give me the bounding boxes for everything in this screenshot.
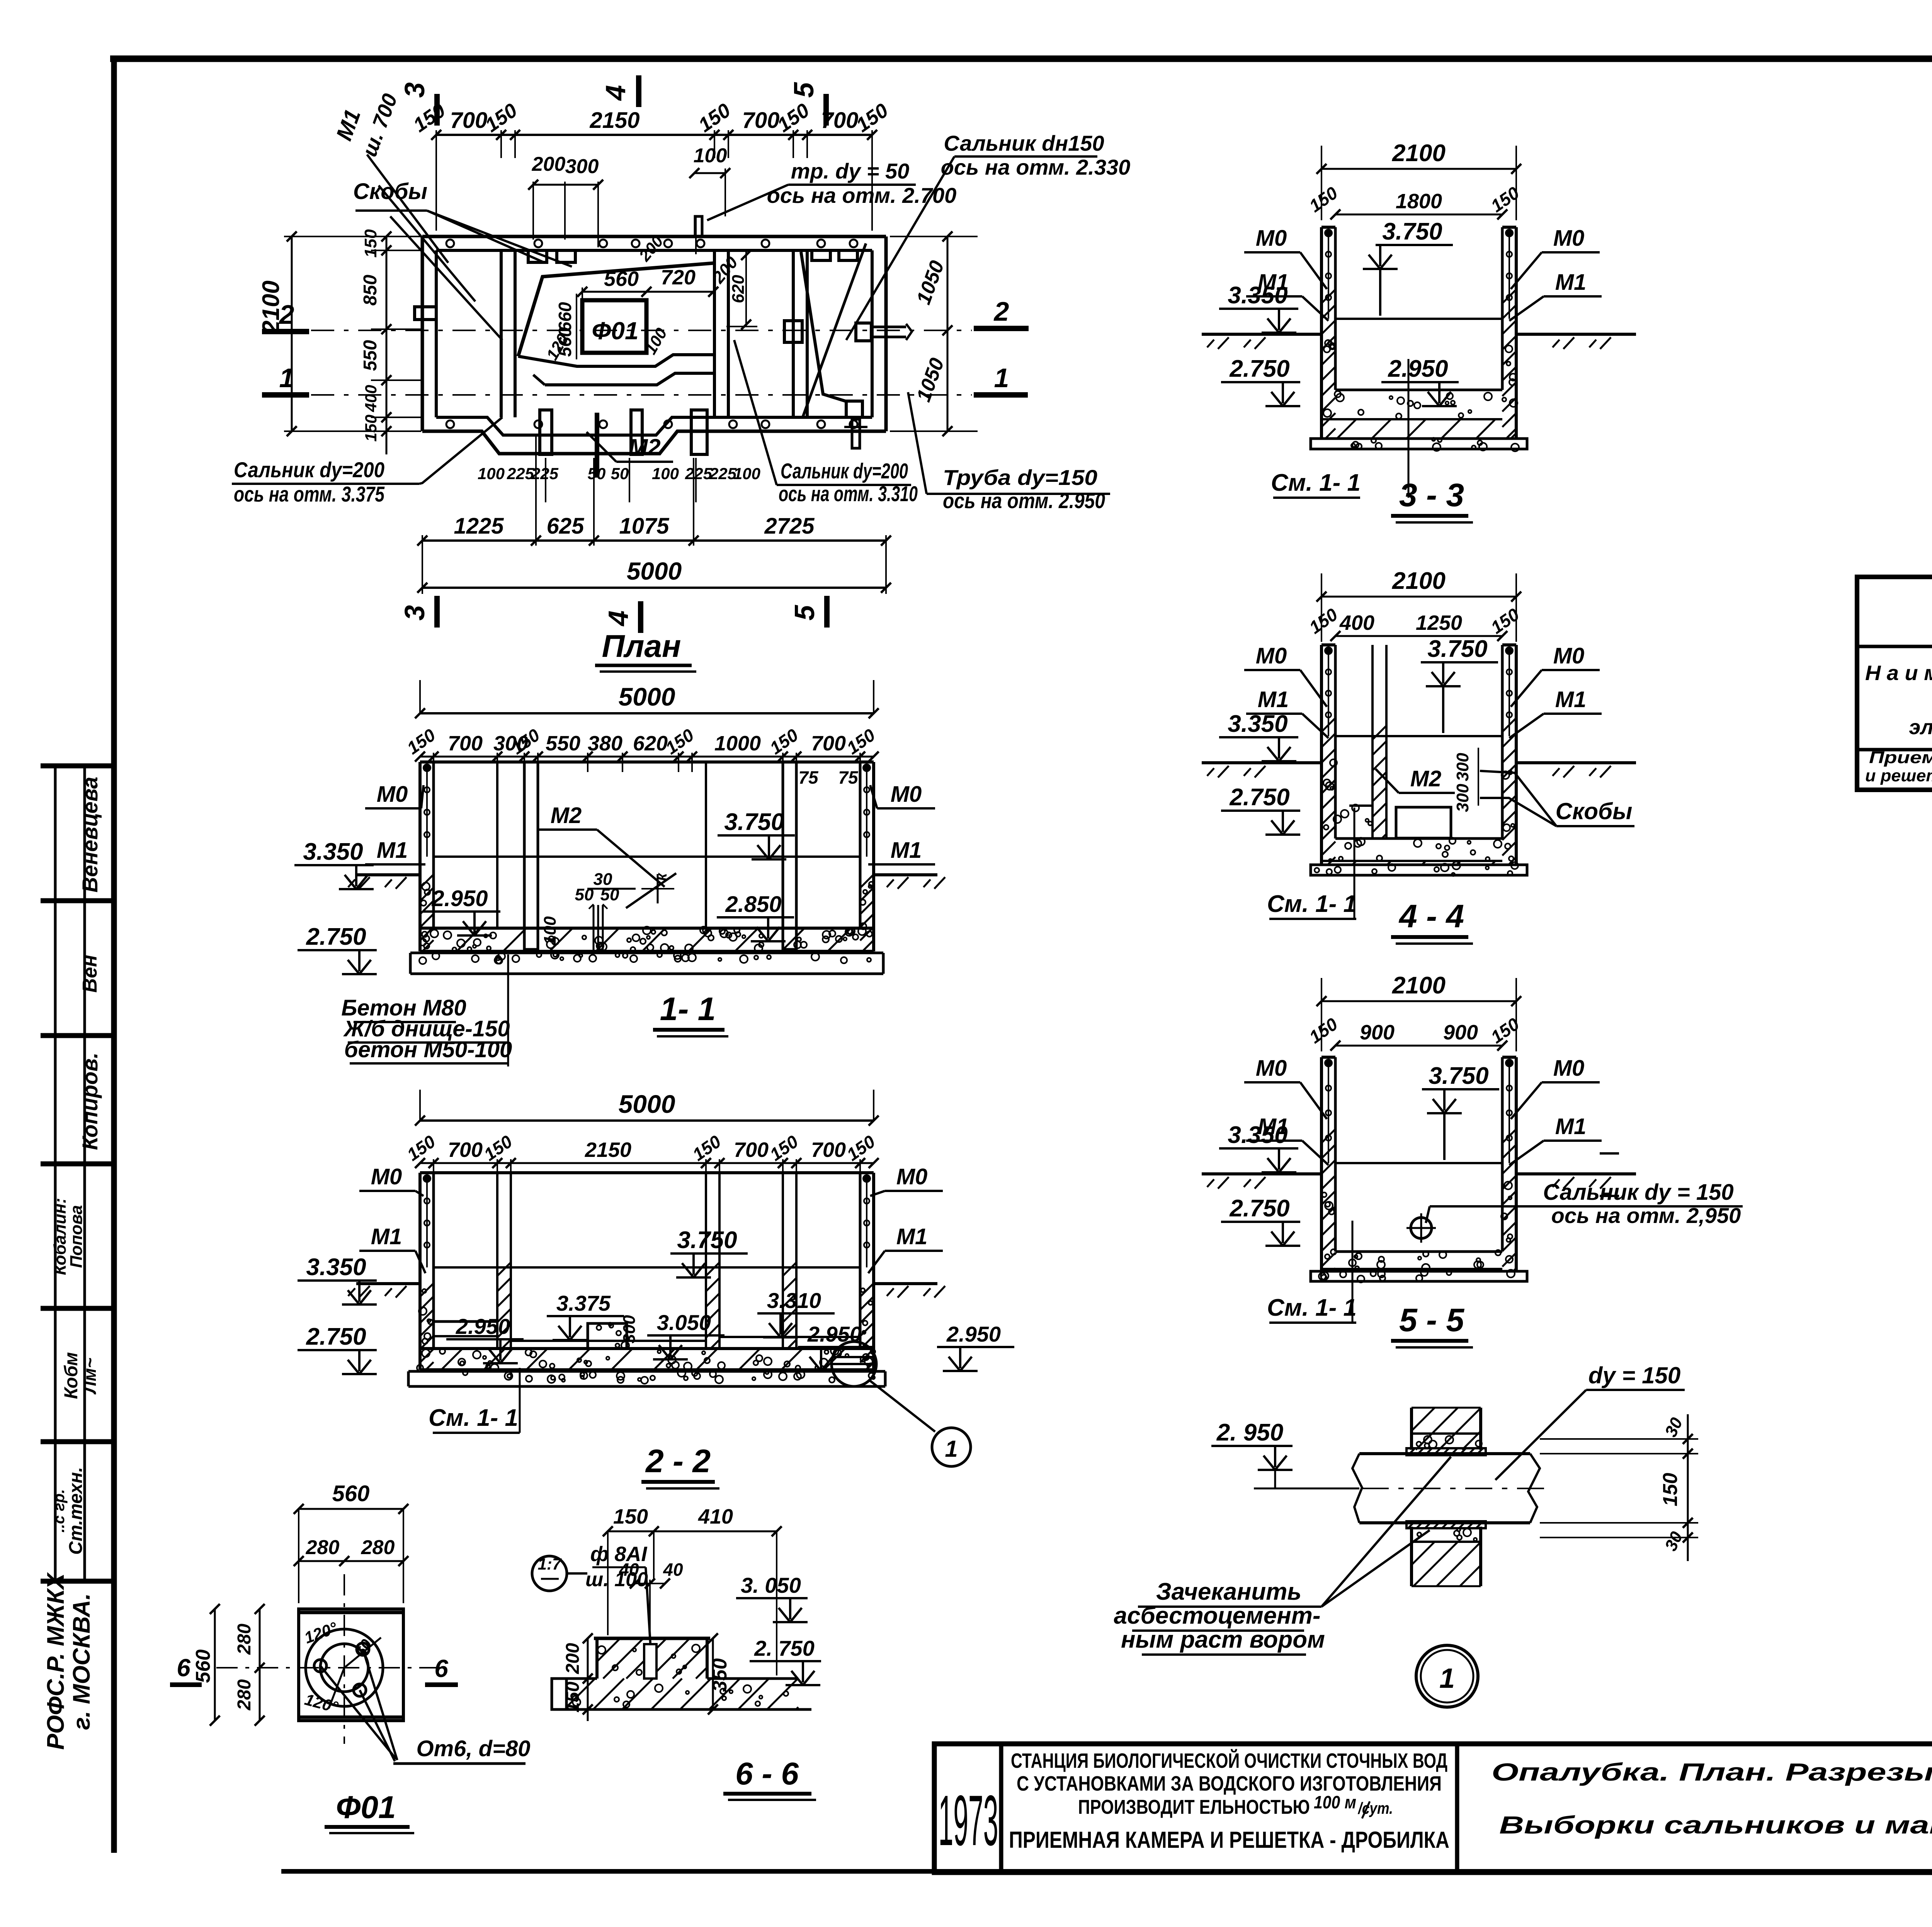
page frame top border — [110, 56, 1932, 62]
section 1-1 wall hatching — [420, 875, 433, 888]
plan right dim 1050 1050 — [947, 236, 949, 431]
section 5-5 wall hatching — [1321, 1129, 1335, 1143]
section 5-5 rebar — [1328, 1063, 1329, 1163]
plan right chamber grinder triangle — [801, 252, 848, 402]
F01 square outline — [299, 1609, 403, 1721]
F01 bolt holes — [314, 1660, 327, 1672]
svg-text:410: 410 — [698, 1505, 733, 1528]
plan below dim row 1 — [422, 539, 886, 542]
svg-text:ось на отм. 2.950: ось на отм. 2.950 — [943, 488, 1105, 513]
page frame left border — [111, 59, 117, 1853]
svg-text:1: 1 — [1439, 1663, 1455, 1694]
svg-text:2.750: 2.750 — [306, 924, 366, 950]
section 1-1 interior level line — [434, 855, 860, 858]
svg-text:Сальник dу = 150: Сальник dу = 150 — [1543, 1180, 1733, 1205]
svg-text:3.375: 3.375 — [556, 1291, 611, 1315]
svg-text:План: План — [602, 629, 681, 664]
svg-text:Н а и м е н о в а н.: Н а и м е н о в а н. — [1865, 662, 1932, 685]
pipe detail caulk leaders — [1321, 1530, 1430, 1607]
svg-text:6: 6 — [434, 1655, 448, 1682]
pipe detail centerline — [1310, 1488, 1549, 1489]
section 4-4 rebar — [1328, 651, 1329, 736]
svg-text:М1: М1 — [1258, 687, 1289, 712]
6-6 rebar circle label — [532, 1556, 567, 1591]
svg-text:элемента: элемента — [1909, 716, 1932, 739]
section 3-3 rebar — [1328, 233, 1329, 319]
svg-text:225: 225 — [709, 464, 737, 483]
section 4-4 floor — [1335, 837, 1502, 840]
svg-text:От6, d=80: От6, d=80 — [417, 1736, 531, 1761]
plan gland stub at partition — [784, 321, 802, 342]
table materialov outer frame — [1857, 577, 1932, 790]
section 1-1 note leader line — [507, 954, 509, 1066]
svg-text:М0: М0 — [371, 1164, 402, 1189]
svg-text:2.750: 2.750 — [1229, 355, 1289, 382]
svg-text:2.750: 2.750 — [306, 1323, 366, 1350]
svg-text:Веневцева: Веневцева — [78, 777, 102, 893]
svg-text:3.350: 3.350 — [1228, 282, 1287, 309]
6-6 dim right 350 — [712, 1638, 714, 1709]
svg-text:280: 280 — [361, 1536, 395, 1559]
section 2-2 wall hatching — [420, 1284, 433, 1297]
svg-text:1: 1 — [994, 363, 1009, 393]
svg-text:2 - 2: 2 - 2 — [645, 1443, 711, 1479]
svg-text:М0: М0 — [891, 782, 922, 807]
svg-text:300: 300 — [565, 155, 599, 178]
svg-text:3: 3 — [400, 82, 430, 98]
section 1-1 rebar left wall — [426, 768, 428, 857]
section 2-2 gland detail circle at right wall — [832, 1342, 876, 1386]
section 1-1 column pair right — [783, 762, 796, 949]
F01 circles — [306, 1629, 383, 1706]
section 5-5 inner dim row — [1335, 1045, 1502, 1047]
6-6 slab left curb — [552, 1679, 566, 1709]
svg-text:700: 700 — [811, 732, 846, 755]
section 4-4 walls — [1320, 645, 1323, 865]
svg-text:50: 50 — [611, 464, 629, 483]
svg-text:620: 620 — [729, 275, 748, 303]
svg-text:100: 100 — [541, 916, 560, 945]
svg-text:2725: 2725 — [764, 514, 815, 539]
svg-text:300: 300 — [620, 1315, 639, 1344]
F01 hole leaders — [320, 1666, 396, 1759]
svg-text:ш. 100: ш. 100 — [585, 1568, 648, 1591]
section 1-1 ground line left — [356, 873, 420, 876]
svg-text:3.350: 3.350 — [306, 1254, 366, 1281]
section 3-3 inner dim row — [1335, 214, 1502, 216]
pipe detail dims right — [1540, 1453, 1698, 1454]
svg-text:3.750: 3.750 — [1429, 1063, 1488, 1089]
svg-text:850: 850 — [360, 275, 381, 306]
section 1-1 tank walls — [420, 760, 874, 764]
section 4-4 wall hatching — [1321, 718, 1335, 732]
svg-text:2100: 2100 — [1392, 568, 1446, 594]
table materialov grid — [1857, 645, 1932, 648]
svg-text:М0: М0 — [377, 782, 408, 807]
svg-text:СТАНЦИЯ БИОЛОГИЧЕСКОЙ ОЧИСТКИ: СТАНЦИЯ БИОЛОГИЧЕСКОЙ ОЧИСТКИ СТОЧНЫХ ВО… — [1011, 1749, 1447, 1772]
6-6 ground slab — [566, 1677, 597, 1680]
pipe detail wall lower part — [1410, 1527, 1413, 1586]
section 5-5 floor — [1335, 1250, 1502, 1253]
svg-text:Приемная камера: Приемная камера — [1869, 748, 1932, 767]
svg-text:2. 950: 2. 950 — [1216, 1419, 1283, 1446]
svg-text:ось на отм. 2.700: ось на отм. 2.700 — [767, 183, 957, 207]
pipe detail position circle 1 — [1416, 1645, 1478, 1707]
svg-text:2.850: 2.850 — [725, 892, 781, 917]
section 2-2 tank walls — [420, 1171, 874, 1174]
svg-text:900: 900 — [1360, 1021, 1395, 1044]
svg-text:150: 150 — [362, 415, 380, 442]
svg-text:2.750: 2.750 — [1229, 784, 1289, 811]
svg-text:30: 30 — [594, 870, 612, 889]
svg-text:Попова: Попова — [67, 1205, 86, 1268]
svg-text:625: 625 — [547, 514, 585, 539]
svg-text:550: 550 — [546, 732, 580, 755]
svg-text:ПРОИЗВОДИТ ЕЛЬНОСТЬЮ: ПРОИЗВОДИТ ЕЛЬНОСТЬЮ — [1078, 1796, 1310, 1818]
plan pipe sleeves through bottom wall — [540, 410, 552, 454]
plan cut mark 5 bottom — [824, 596, 830, 628]
section 1-1 top dimension row — [420, 756, 874, 758]
svg-text:700: 700 — [448, 732, 483, 755]
svg-text:М0: М0 — [1553, 226, 1585, 251]
section 2-2 ground lines — [356, 1282, 420, 1285]
svg-text:2100: 2100 — [1392, 972, 1446, 999]
svg-text:150: 150 — [613, 1505, 648, 1528]
svg-text:400: 400 — [362, 385, 380, 412]
plan pipe stub right wall outside — [856, 323, 871, 341]
svg-text:3.750: 3.750 — [677, 1227, 737, 1253]
svg-text:700: 700 — [450, 108, 488, 133]
svg-text:225: 225 — [507, 464, 534, 483]
svg-text:2100: 2100 — [258, 281, 284, 334]
svg-text:М0: М0 — [1256, 643, 1287, 668]
F01 dim 280 280 — [299, 1560, 403, 1562]
section 2-2 floor slab — [420, 1347, 874, 1350]
svg-text:6 - 6: 6 - 6 — [735, 1756, 799, 1791]
section 4-4 center block on floor — [1396, 807, 1451, 838]
svg-text:280: 280 — [234, 1679, 255, 1711]
plan wall dots — [446, 240, 454, 247]
plan cut mark 5 top — [823, 94, 829, 126]
6-6 anchor bolt — [644, 1644, 656, 1679]
plan F01 foundation square — [582, 300, 646, 353]
svg-text:2.950: 2.950 — [1388, 355, 1448, 382]
section 1-1 ground line right — [874, 873, 937, 876]
section 4-4 dim 2100 — [1321, 596, 1516, 598]
section 5-5 base plate — [1311, 1271, 1527, 1281]
svg-text:300: 300 — [1453, 753, 1472, 781]
svg-text:Вен: Вен — [79, 955, 101, 993]
svg-text:75: 75 — [838, 767, 859, 787]
plan left small dims — [386, 236, 388, 454]
F01 left dims 280 — [259, 1609, 261, 1721]
svg-text:С УСТАНОВКАМИ ЗА ВОДСКОГО ИЗГ: С УСТАНОВКАМИ ЗА ВОДСКОГО ИЗГОТОВЛЕНИЯ — [1017, 1772, 1442, 1795]
svg-text:См. 1- 1: См. 1- 1 — [1267, 891, 1357, 917]
svg-text:М1: М1 — [1555, 270, 1587, 295]
svg-text:3.350: 3.350 — [303, 838, 363, 865]
svg-text:ось на отм. 3.375: ось на отм. 3.375 — [234, 482, 385, 506]
svg-text:ПРИЕМНАЯ КАМЕРА И РЕШЕТКА - Д: ПРИЕМНАЯ КАМЕРА И РЕШЕТКА - ДРОБИЛКА — [1009, 1827, 1449, 1853]
plan centerline 2-2 — [311, 330, 972, 331]
section 3-3 ground lines — [1202, 333, 1321, 336]
6-6 dims 40 40 — [635, 1583, 650, 1584]
title block frame — [934, 1744, 1932, 1873]
plan partition walls — [500, 250, 503, 417]
svg-text:5: 5 — [789, 82, 820, 98]
plan gland stub left wall — [415, 307, 436, 320]
svg-text:3.750: 3.750 — [1427, 636, 1487, 662]
svg-text:М2: М2 — [551, 803, 582, 828]
svg-text:700: 700 — [742, 108, 780, 133]
section 4-4 interior partition — [1371, 645, 1374, 838]
svg-text:См. 1- 1: См. 1- 1 — [1267, 1294, 1357, 1321]
svg-text:700: 700 — [821, 108, 859, 133]
section 2-2 left chamber floor — [434, 1320, 497, 1323]
svg-text:550: 550 — [360, 340, 381, 371]
section 5-5 gland circle in wall — [1411, 1218, 1432, 1238]
section 2-2 top dimension row — [420, 1162, 874, 1164]
plan cut mark 4 top — [636, 75, 641, 107]
svg-text:350: 350 — [709, 1658, 731, 1692]
svg-text:225: 225 — [531, 464, 559, 483]
svg-text:..с гр.: ..с гр. — [51, 1489, 68, 1532]
svg-text:700: 700 — [734, 1138, 769, 1162]
svg-text:1250: 1250 — [1416, 611, 1462, 634]
F01 left dim 560 — [214, 1609, 216, 1721]
section 2-2 interior level line — [434, 1266, 860, 1269]
svg-text:300: 300 — [1453, 784, 1472, 812]
svg-text:1800: 1800 — [1396, 190, 1442, 213]
svg-text:150: 150 — [1659, 1473, 1682, 1507]
svg-text:к: к — [653, 873, 670, 881]
pipe detail sleeve top — [1406, 1448, 1486, 1455]
svg-text:2.950: 2.950 — [456, 1314, 510, 1339]
svg-text:М2: М2 — [1410, 766, 1442, 791]
svg-text:75: 75 — [798, 767, 819, 787]
svg-text:5000: 5000 — [619, 682, 675, 711]
svg-text:ось на отм. 2.330: ось на отм. 2.330 — [941, 155, 1131, 179]
section 1-1 interior partitions — [496, 762, 498, 928]
svg-text:280: 280 — [234, 1624, 255, 1655]
F01 dim 560 top — [299, 1508, 403, 1510]
6-6 wall stub — [595, 1638, 599, 1679]
section 5-5 walls — [1320, 1057, 1323, 1271]
pipe detail pipe body — [1359, 1452, 1530, 1455]
svg-text:г. МОСКВА.: г. МОСКВА. — [68, 1593, 95, 1730]
plan below dim 5000 — [422, 587, 886, 589]
svg-text:380: 380 — [588, 732, 622, 755]
section 5-5 ground lines — [1202, 1172, 1321, 1175]
plan skoby notches top — [528, 250, 547, 262]
svg-text:5: 5 — [789, 605, 820, 621]
svg-text:4: 4 — [603, 611, 634, 627]
svg-text:150: 150 — [361, 229, 380, 258]
plan pipe dy50 stub at top wall — [695, 216, 702, 236]
svg-text:225: 225 — [685, 464, 713, 483]
svg-text:2. 750: 2. 750 — [754, 1636, 815, 1660]
section 4-4 interior top line — [1335, 735, 1502, 737]
svg-text:720: 720 — [661, 266, 696, 289]
svg-text:М1: М1 — [371, 1224, 402, 1249]
section 1-1 small pipes 50 50 — [593, 905, 595, 951]
svg-text:2150: 2150 — [585, 1138, 631, 1162]
svg-text:150: 150 — [563, 1682, 583, 1713]
svg-text:2.750: 2.750 — [1229, 1195, 1289, 1222]
svg-text:3.750: 3.750 — [1382, 218, 1442, 245]
svg-text:М0: М0 — [896, 1164, 928, 1189]
svg-text:1:7: 1:7 — [538, 1555, 562, 1573]
svg-text:Лм~: Лм~ — [80, 1358, 100, 1395]
plan cut mark 1 right — [974, 392, 1028, 398]
svg-text:М0: М0 — [1553, 1056, 1585, 1081]
section 2-2 detail leader to circle 1 — [869, 1380, 935, 1432]
svg-text:М0: М0 — [1256, 226, 1287, 251]
svg-text:200: 200 — [532, 153, 566, 175]
svg-text:200: 200 — [563, 1643, 583, 1674]
section 5-5 dim 2100 — [1321, 1000, 1516, 1002]
plan inner wall rectangle — [436, 249, 872, 252]
svg-text:3.350: 3.350 — [1228, 1122, 1287, 1148]
svg-text:бетон М50-100: бетон М50-100 — [344, 1037, 512, 1062]
section 2-2 dim 5000 — [420, 1119, 874, 1122]
svg-text:Зачеканить: Зачеканить — [1156, 1578, 1302, 1605]
svg-text:700: 700 — [811, 1138, 846, 1162]
section 2-2 rebar walls — [426, 1179, 428, 1267]
svg-text:2150: 2150 — [589, 108, 639, 133]
svg-text:2.950: 2.950 — [431, 886, 488, 911]
svg-text:4 - 4: 4 - 4 — [1398, 898, 1464, 934]
left stamp table frame — [54, 766, 57, 1581]
page frame bottom border — [281, 1869, 1932, 1874]
svg-text:100: 100 — [652, 464, 679, 483]
svg-text:Сальник dу=200: Сальник dу=200 — [781, 459, 908, 483]
svg-text:1075: 1075 — [619, 514, 669, 539]
svg-text:3.350: 3.350 — [1228, 711, 1287, 737]
section 1-1 floor slab — [420, 927, 874, 930]
section 2-2 right chambers floor — [719, 1336, 860, 1338]
svg-text:М1: М1 — [1555, 687, 1587, 712]
section 4-4 inner chamber floor — [1349, 804, 1372, 807]
plan extension lines below — [535, 437, 537, 546]
svg-text:1- 1: 1- 1 — [660, 991, 716, 1027]
svg-text:Опалубка. План. Разрезы 1-1: Опалубка. План. Разрезы 1-1 ÷ 6- 6. Ф01. — [1492, 1758, 1932, 1786]
section 3-3 dim 2100 — [1321, 168, 1516, 170]
plan cut mark 2 left — [262, 329, 309, 334]
svg-text:тр. dу = 50: тр. dу = 50 — [791, 159, 910, 183]
plan top dimension row — [436, 134, 872, 136]
plan cut mark 1 left — [262, 392, 309, 398]
svg-text:4: 4 — [600, 85, 631, 101]
svg-text:Ф01: Ф01 — [336, 1790, 396, 1825]
svg-text:М2: М2 — [628, 434, 660, 460]
svg-text:1: 1 — [945, 1436, 957, 1462]
section 1-1 column pair left — [524, 762, 538, 949]
section 4-4 ground lines — [1202, 761, 1321, 764]
svg-text:М1: М1 — [896, 1224, 928, 1249]
svg-text:См. 1- 1: См. 1- 1 — [429, 1405, 518, 1431]
svg-text:М0: М0 — [1256, 1056, 1287, 1081]
svg-text:3.050: 3.050 — [657, 1310, 711, 1335]
svg-text:Сальник dу=200: Сальник dу=200 — [234, 458, 384, 482]
section 1-1 rebar right wall — [866, 768, 867, 857]
F01 cut marks 6 — [170, 1682, 202, 1687]
svg-text:РОФС.Р. МЖКХ: РОФС.Р. МЖКХ — [43, 1572, 69, 1750]
6-6 dims left 200 150 — [587, 1638, 589, 1721]
svg-text:5 - 5: 5 - 5 — [1399, 1302, 1464, 1338]
section 1-1 dim 5000 — [420, 712, 874, 714]
section 3-3 interior top line — [1335, 318, 1502, 320]
svg-text:М1: М1 — [1555, 1114, 1587, 1139]
pipe detail sleeve bottom — [1406, 1521, 1486, 1528]
svg-text:40: 40 — [663, 1560, 683, 1580]
plan outer wall outline — [422, 235, 886, 238]
svg-text:560: 560 — [332, 1481, 370, 1506]
plan centerline 1-1 — [311, 394, 972, 396]
section 3-3 floor — [1335, 389, 1502, 391]
svg-text:и решетка - дробилка: и решетка - дробилка — [1865, 766, 1932, 785]
svg-text:100: 100 — [694, 145, 727, 167]
svg-text:М1: М1 — [377, 838, 408, 863]
plan bottom wall with bulge — [422, 431, 886, 454]
svg-text:Кобм: Кобм — [61, 1352, 82, 1399]
section 2-2 base plate — [408, 1370, 885, 1373]
plan F01 left dims 660 560 — [576, 294, 577, 359]
svg-text:5000: 5000 — [619, 1090, 675, 1118]
svg-text:900: 900 — [1443, 1021, 1478, 1044]
section 2-2 center floor step block — [588, 1323, 627, 1349]
svg-text:1973: 1973 — [939, 1781, 998, 1861]
section 3-3 base plate — [1311, 439, 1527, 449]
svg-text:6: 6 — [177, 1654, 190, 1682]
plan small stub bottom right — [852, 419, 860, 448]
svg-text:100 м: 100 м — [1314, 1792, 1356, 1812]
6-6 dims top — [608, 1531, 777, 1532]
svg-text:ф 8АІ: ф 8АІ — [590, 1543, 648, 1566]
plan cut mark 3 top — [434, 94, 440, 126]
plan lotok funnel in central chamber — [518, 263, 713, 356]
svg-text:dу = 150: dу = 150 — [1588, 1362, 1681, 1388]
svg-text:М1: М1 — [891, 838, 922, 863]
svg-text:50: 50 — [588, 464, 606, 483]
section 1-1 protective layer — [410, 952, 883, 954]
plan cut mark 3 bottom — [434, 596, 440, 628]
svg-text:Копиров.: Копиров. — [78, 1053, 102, 1150]
svg-text:3. 050: 3. 050 — [741, 1573, 801, 1597]
F01 centerlines — [344, 1574, 345, 1744]
svg-text:700: 700 — [448, 1138, 483, 1162]
plan cut mark 4 bottom — [638, 601, 643, 633]
plan left dim 2100 — [291, 236, 293, 431]
svg-text:2.950: 2.950 — [946, 1322, 1001, 1346]
svg-text:100: 100 — [478, 464, 505, 483]
section 1-1 slope mark 30 — [587, 888, 636, 890]
pipe detail wall upper part — [1410, 1408, 1413, 1450]
section 3-3 wall hatching — [1321, 289, 1335, 303]
section 2-2 partitions hatched — [496, 1173, 498, 1349]
section 3-3 walls — [1320, 227, 1323, 439]
svg-text:3.310: 3.310 — [767, 1288, 821, 1313]
plan F01 dims 560 720 — [582, 291, 713, 293]
svg-text:2100: 2100 — [1392, 140, 1446, 167]
svg-text:Труба dу=150: Труба dу=150 — [943, 465, 1097, 490]
svg-text:400: 400 — [1339, 611, 1374, 634]
section 4-4 inner dim row — [1335, 635, 1502, 637]
svg-text:Ст.техн.: Ст.техн. — [66, 1467, 86, 1555]
svg-text:М0: М0 — [1553, 643, 1585, 668]
svg-text:560: 560 — [604, 267, 639, 291]
svg-text:3.750: 3.750 — [724, 809, 784, 835]
svg-text:Скобы: Скобы — [1556, 798, 1633, 824]
